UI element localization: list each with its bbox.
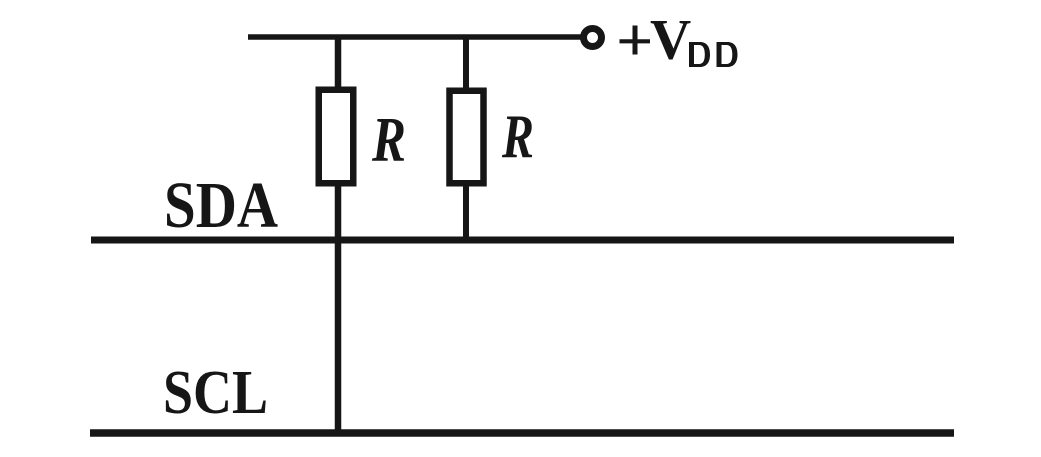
svg-text:SDA: SDA xyxy=(164,169,278,242)
svg-text:V: V xyxy=(650,9,691,72)
svg-text:R: R xyxy=(371,104,406,175)
svg-text:R: R xyxy=(501,104,534,172)
svg-text:SCL: SCL xyxy=(163,359,268,427)
